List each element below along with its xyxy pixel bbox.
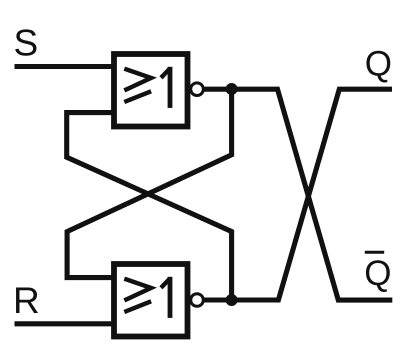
svg-text:R: R bbox=[13, 280, 40, 321]
Qbar overbar bbox=[365, 251, 384, 254]
svg-text:Q: Q bbox=[365, 45, 392, 84]
svg-text:S: S bbox=[14, 23, 39, 64]
NOR gate U1 box bbox=[114, 54, 188, 127]
NOR gate U1 label &#8805;1 bbox=[124, 67, 170, 108]
wire node A to Qbar output (crossover right) bbox=[232, 89, 393, 300]
wire R input bbox=[15, 321, 118, 326]
NOR gate U1 output bubble bbox=[191, 83, 204, 96]
wire node B feedback to U1 input (cross-coupling) bbox=[67, 113, 232, 300]
wire U1 output to node A bbox=[205, 87, 232, 92]
node B junction dot bbox=[226, 294, 238, 306]
wire node B to Q output (crossover right) bbox=[232, 89, 392, 300]
NOR gate U2 output bubble bbox=[191, 294, 204, 307]
node A junction dot bbox=[226, 83, 238, 95]
NOR gate U2 label &#8805;1 bbox=[124, 277, 170, 318]
svg-text:Q: Q bbox=[364, 254, 391, 293]
NOR gate U2 box bbox=[114, 264, 188, 337]
wire node A feedback to U2 input (cross-coupling) bbox=[67, 89, 232, 277]
wire U2 output to node B bbox=[205, 297, 232, 302]
wire S input bbox=[15, 64, 118, 69]
